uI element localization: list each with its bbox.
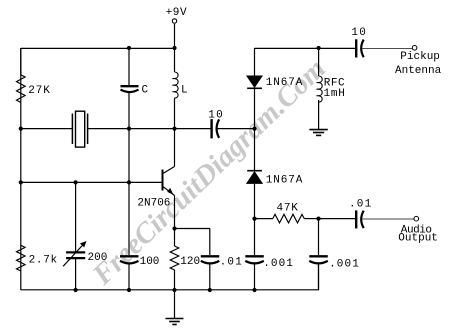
wire 27K upper lead	[20, 48, 22, 75]
wire emitter tap horizontal	[175, 228, 211, 230]
junction bottom rail / 120 and ground	[172, 288, 176, 292]
capacitor .01 output coupling	[356, 210, 364, 228]
svg-text:Pickup: Pickup	[400, 51, 440, 63]
wire 100 cap upper lead	[128, 182, 130, 255]
svg-text:.001: .001	[329, 259, 360, 271]
wire L upper lead	[174, 48, 176, 72]
wire cap 10 to diode node	[217, 128, 255, 130]
junction base wire / 100 branch	[127, 180, 131, 184]
terminal +9V	[172, 19, 176, 23]
wire 47K right lead	[304, 218, 318, 220]
wire diode chain top	[254, 48, 256, 76]
junction detector node / diodes	[252, 127, 256, 131]
svg-text:2N706: 2N706	[137, 198, 170, 210]
inductor RFC 1mH	[317, 76, 322, 102]
capacitor 10 series (middle)	[212, 119, 220, 138]
capacitor 10 antenna coupling (top right)	[356, 39, 364, 57]
wire diode2 to 47K node	[254, 184, 256, 219]
wire top right (diode to cap 10)	[255, 47, 357, 49]
capacitor .001 first	[245, 256, 263, 263]
wire RFC lower lead to ground	[318, 100, 320, 129]
svg-text:L: L	[181, 85, 188, 97]
svg-text:.01: .01	[349, 199, 372, 211]
svg-text:.01: .01	[220, 257, 243, 269]
resistor 120	[170, 246, 179, 270]
wire collector vertical	[174, 129, 176, 167]
wire 47K left lead	[255, 218, 273, 220]
svg-text:1mH: 1mH	[324, 88, 346, 100]
svg-text:120: 120	[180, 256, 200, 268]
svg-text:Output: Output	[398, 233, 438, 245]
svg-text:1N67A: 1N67A	[266, 77, 304, 89]
junction bottom rail / .001	[252, 288, 256, 292]
resistor 2.7k	[17, 245, 26, 271]
ground RFC	[309, 130, 327, 136]
wire RFC upper lead	[318, 48, 320, 76]
wire diode1 to node	[254, 89, 256, 129]
svg-text:.001: .001	[263, 258, 294, 270]
terminal pickup antenna	[362, 46, 417, 51]
svg-text:1N67A: 1N67A	[266, 175, 304, 187]
wire base rail	[21, 181, 163, 183]
capacitor .01 emitter bypass	[201, 256, 220, 263]
junction left rail / crystal wire	[19, 127, 23, 131]
transistor 2N706	[163, 167, 175, 196]
wire .001 second lower lead	[318, 264, 320, 291]
wire node to diode2	[254, 129, 256, 171]
svg-text:Antenna: Antenna	[395, 65, 442, 77]
junction bottom rail / .01	[208, 288, 212, 292]
junction bottom rail / 100	[127, 288, 131, 292]
inductor L	[173, 72, 178, 98]
junction 47K / .001 branch / output	[316, 217, 320, 221]
capacitor 100	[120, 256, 139, 263]
variable capacitor 200	[63, 241, 86, 266]
wire 47K node to output cap	[319, 218, 356, 220]
svg-text:200: 200	[88, 252, 108, 264]
crystal	[72, 111, 87, 147]
svg-text:C: C	[142, 85, 149, 97]
wire C line lower	[128, 93, 130, 129]
wire middle left (rail to crystal)	[21, 128, 73, 130]
wire 100 cap lower lead	[128, 264, 130, 291]
svg-text:27K: 27K	[28, 85, 51, 97]
junction bottom rail / 200	[74, 288, 78, 292]
wire 120 to bottom rail	[174, 270, 176, 290]
resistor 27K	[17, 75, 26, 103]
svg-text:2.7k: 2.7k	[29, 255, 58, 267]
wire .001 cap to bottom rail	[254, 264, 256, 291]
wire .01 cap lower lead	[209, 264, 211, 291]
capacitor C	[121, 86, 139, 92]
wire bottom rail	[21, 264, 319, 290]
terminal audio output	[362, 216, 419, 221]
wire .001 second upper lead	[318, 219, 320, 255]
wire C line to base rail	[128, 129, 130, 182]
wire diode node to .001 cap	[254, 219, 256, 255]
junction top rail / +9V and L branch	[172, 46, 176, 50]
wire emitter vertical	[174, 196, 176, 247]
junction antenna wire / RFC	[317, 46, 321, 50]
junction diode chain / 47K wire	[252, 217, 256, 221]
wire var cap 200 upper lead	[75, 182, 77, 251]
svg-text:100: 100	[140, 256, 160, 268]
ground main	[166, 319, 184, 325]
junction C branch / oscillator node	[127, 127, 131, 131]
svg-text:10: 10	[351, 27, 367, 39]
wire .01 cap upper lead	[209, 229, 211, 256]
junction base wire / 200 branch	[74, 180, 78, 184]
diode 1N67A second	[246, 171, 263, 184]
capacitor .001 second	[309, 256, 328, 263]
diode 1N67A first	[246, 76, 263, 89]
wire ground stem main	[174, 290, 176, 318]
wire crystal to cap 10	[87, 128, 211, 130]
svg-text:+9V: +9V	[166, 7, 188, 19]
junction left rail / base wire	[19, 180, 23, 184]
wire +9V lead	[174, 24, 176, 48]
svg-text:47K: 47K	[277, 202, 299, 214]
wire L lower lead	[174, 98, 176, 129]
svg-text:10: 10	[208, 109, 224, 121]
junction L / collector node	[172, 127, 176, 131]
wire var cap 200 lower lead	[75, 259, 77, 290]
wire left rail	[20, 48, 22, 290]
junction top rail / C branch	[127, 46, 131, 50]
wire C line upper	[128, 48, 130, 85]
junction emitter / .01 tap	[172, 226, 176, 230]
wire top rail	[21, 47, 175, 49]
resistor 47K	[273, 214, 305, 223]
